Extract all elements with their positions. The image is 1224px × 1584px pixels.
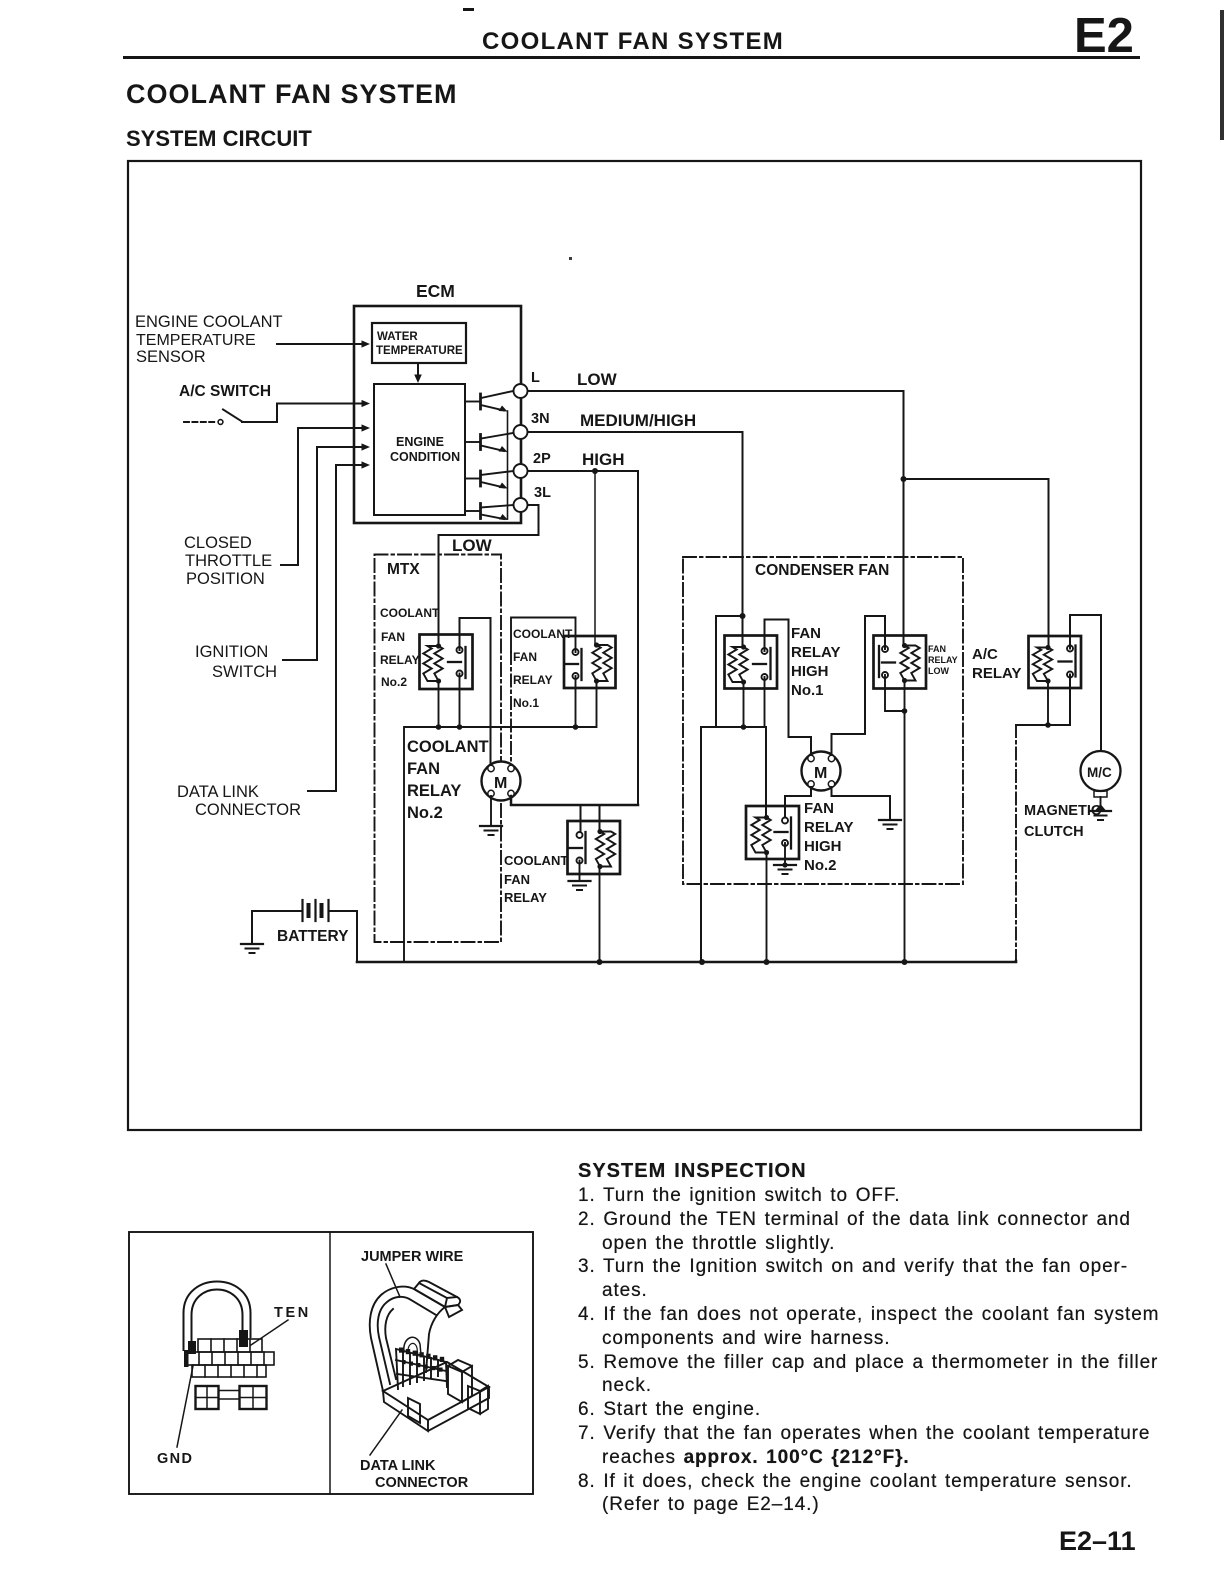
svg-text:COOLANT: COOLANT <box>504 853 568 868</box>
pin circle 2P <box>514 464 528 478</box>
jumper wire (left panel) <box>184 1282 251 1355</box>
pin circle L <box>514 384 528 398</box>
transistor Q2 <box>465 433 513 452</box>
svg-text:TEMPERATURE: TEMPERATURE <box>136 332 256 349</box>
svg-text:GND: GND <box>157 1451 193 1467</box>
fan relay high No.1 label <box>791 625 840 699</box>
coolant fan relay No.1 label (small) <box>513 627 573 710</box>
svg-text:LOW: LOW <box>452 536 493 555</box>
svg-text:CLOSED: CLOSED <box>184 534 252 552</box>
svg-text:BATTERY: BATTERY <box>277 928 349 945</box>
relay K2 coolant fan relay No.1 <box>564 636 616 688</box>
motor M2 condenser fan motor <box>802 752 841 791</box>
ground below coolant fan relay <box>569 881 591 890</box>
node MEDIUM/HIGH branch <box>740 613 746 619</box>
svg-text:FAN: FAN <box>513 650 537 664</box>
relay K5 fan relay low <box>874 636 927 689</box>
svg-text:No.2: No.2 <box>804 857 837 874</box>
coolant fan relay label <box>504 853 568 905</box>
motor M1 coolant fan motor <box>482 762 521 801</box>
svg-text:FAN: FAN <box>504 872 530 887</box>
svg-text:ENGINE COOLANT: ENGINE COOLANT <box>135 313 283 331</box>
svg-text:3N: 3N <box>531 411 550 427</box>
ground right of fan relay high No.2 <box>879 820 901 829</box>
svg-text:RELAY: RELAY <box>504 890 547 905</box>
wire branch to coolant fan relay coil <box>599 805 601 832</box>
section headings <box>126 79 458 110</box>
wire ignition switch to ECM <box>283 447 363 660</box>
condenser bus <box>700 727 702 962</box>
node bus junctions <box>597 959 603 965</box>
relay K7 A/C relay <box>1029 636 1082 688</box>
wire condenser motor to fan relay high No.2 contact <box>785 787 811 821</box>
wire fan relay low to main bus <box>904 681 906 963</box>
wire fan relay high No.2 coil to main bus <box>766 853 768 963</box>
svg-text:CONNECTOR: CONNECTOR <box>375 1475 469 1491</box>
dashed wire to motor terminal (ATX) <box>510 652 512 766</box>
system inspection text <box>578 1159 1178 1517</box>
wire relay No.1 contact bottom to bus <box>575 676 577 727</box>
data link connector face (left panel) <box>184 1339 274 1377</box>
wire branch to coolant fan relay contact <box>580 805 582 835</box>
main ground bus <box>357 961 1016 962</box>
fan relay low label (small) <box>928 644 958 676</box>
svg-text:RELAY: RELAY <box>791 644 840 661</box>
wire coolant fan relay contact to ground <box>579 861 581 882</box>
wire MEDIUM/HIGH branch <box>716 616 743 727</box>
svg-text:M/C: M/C <box>1087 765 1112 780</box>
svg-text:No.1: No.1 <box>513 696 539 710</box>
svg-text:DATA LINK: DATA LINK <box>177 783 259 801</box>
wire data link connector to ECM <box>308 465 363 791</box>
wire closed throttle position to ECM <box>281 428 363 565</box>
ground below coolant fan motor <box>480 826 502 835</box>
svg-text:COOLANT: COOLANT <box>380 606 440 620</box>
relay K4 fan relay high No.1 <box>725 636 778 689</box>
wire condenser motor to ground <box>832 787 891 820</box>
wire relay No.1 contact top to ATX motor feed <box>511 618 576 653</box>
svg-text:RELAY: RELAY <box>972 665 1021 682</box>
page header <box>482 28 784 56</box>
svg-text:HIGH: HIGH <box>791 663 829 680</box>
A/C switch S1 <box>184 421 216 423</box>
node LOW branch <box>901 476 907 482</box>
svg-text:TEMPERATURE: TEMPERATURE <box>376 345 463 357</box>
transistor Q4 <box>465 504 513 521</box>
fan relay high No.2 label <box>804 800 853 874</box>
wire relay high No.1 contact bottom to bus <box>764 677 766 727</box>
wire fan relay low outputs join <box>885 675 905 711</box>
relay K1 coolant fan relay No.2 <box>420 635 473 690</box>
pin circle 3L <box>514 498 528 512</box>
svg-text:THROTTLE: THROTTLE <box>185 552 272 570</box>
svg-text:FAN: FAN <box>928 644 946 654</box>
svg-text:CONDITION: CONDITION <box>390 450 460 464</box>
svg-text:MEDIUM/HIGH: MEDIUM/HIGH <box>580 411 696 430</box>
emitter rail inside ECM <box>507 411 509 519</box>
svg-text:M: M <box>814 765 827 782</box>
node bus joints <box>436 724 442 730</box>
wire coolant fan relay coil to main bus <box>599 867 601 963</box>
svg-text:M: M <box>494 775 507 792</box>
svg-text:FAN: FAN <box>381 630 405 644</box>
MTX dashed enclosure <box>375 555 502 943</box>
svg-text:FAN: FAN <box>791 625 821 642</box>
svg-text:JUMPER WIRE: JUMPER WIRE <box>361 1249 464 1265</box>
engine condition block <box>374 384 465 515</box>
transistor Q1 <box>465 391 513 412</box>
svg-text:RELAY: RELAY <box>380 653 420 667</box>
svg-text:A/C SWITCH: A/C SWITCH <box>179 383 271 400</box>
svg-text:MAGNETIC: MAGNETIC <box>1024 803 1102 819</box>
wire relay No.2 contact to motor <box>460 618 491 766</box>
ground below battery <box>241 944 263 953</box>
coolant fan relay No.2 label (large) <box>407 738 489 822</box>
svg-text:No.1: No.1 <box>791 682 824 699</box>
svg-text:DATA LINK: DATA LINK <box>360 1458 436 1474</box>
ground below magnetic clutch <box>1090 804 1111 820</box>
svg-text:RELAY: RELAY <box>407 782 461 800</box>
wire 3L to LOW (MTX) <box>439 505 539 646</box>
svg-text:L: L <box>531 370 540 386</box>
svg-text:3L: 3L <box>534 485 551 501</box>
page number <box>1059 1526 1136 1557</box>
wire relay high No.1 coil bottom to bus <box>743 682 745 727</box>
svg-text:2P: 2P <box>533 451 551 467</box>
circuit border frame <box>128 161 1141 1130</box>
svg-text:RELAY: RELAY <box>928 655 958 665</box>
inspection figure frame <box>129 1232 533 1494</box>
wire relay high No.1 contact top to condenser motor <box>765 620 812 759</box>
wire A/C relay contact to magnetic clutch <box>1070 615 1101 751</box>
ECM box U10 <box>354 306 521 523</box>
svg-text:No.2: No.2 <box>381 675 407 689</box>
water temperature block <box>372 323 466 363</box>
lower connector block (left panel) <box>196 1386 267 1409</box>
dashed wire A/C relay return to main bus <box>1015 725 1017 961</box>
arrow water temp to engine condition <box>417 363 419 376</box>
wire relay No.2 contact bottom to bus <box>459 674 461 728</box>
svg-text:HIGH: HIGH <box>804 838 842 855</box>
svg-text:CONNECTOR: CONNECTOR <box>195 801 301 819</box>
wire fan relay low contact top to condenser motor <box>832 616 886 759</box>
wire A/C switch to ECM <box>242 404 363 423</box>
wire relay No.2 coil to bus <box>438 681 440 727</box>
svg-text:HIGH: HIGH <box>582 450 625 469</box>
svg-text:ENGINE: ENGINE <box>396 435 444 449</box>
svg-text:COOLANT: COOLANT <box>407 738 489 756</box>
svg-text:A/C: A/C <box>972 646 998 663</box>
magnetic clutch label <box>1024 803 1102 840</box>
wire sensor arrow into water temperature <box>277 343 363 345</box>
svg-text:LOW: LOW <box>577 370 618 389</box>
svg-text:RELAY: RELAY <box>804 819 853 836</box>
wire HIGH net <box>528 471 639 805</box>
relay K6 fan relay high No.2 <box>746 806 799 859</box>
svg-text:TEN: TEN <box>274 1305 311 1321</box>
condenser fan dashed enclosure <box>683 557 963 884</box>
coolant fan relay No.2 label (small) <box>380 606 440 689</box>
svg-text:FAN: FAN <box>407 760 440 778</box>
node HIGH branch <box>592 468 598 474</box>
transistor Q3 <box>465 471 513 489</box>
wire LOW net <box>528 391 904 646</box>
data link connector 3D drawing <box>370 1281 489 1431</box>
svg-text:SWITCH: SWITCH <box>212 663 277 681</box>
svg-text:RELAY: RELAY <box>513 673 553 687</box>
svg-text:IGNITION: IGNITION <box>195 643 268 661</box>
ground below fan relay high No.2 <box>774 862 796 874</box>
svg-text:LOW: LOW <box>928 666 949 676</box>
svg-text:CONDENSER FAN: CONDENSER FAN <box>755 562 889 579</box>
relay K3 coolant fan relay <box>568 821 621 874</box>
A/C relay label <box>972 646 1021 682</box>
wire HIGH branch to coolant fan relay No.1 coil <box>594 471 596 645</box>
wire motor to HIGH riser (thick) <box>511 796 638 805</box>
motor M3 magnetic clutch <box>1081 751 1121 791</box>
wire MEDIUM/HIGH net <box>528 432 743 646</box>
svg-text:No.2: No.2 <box>407 804 443 822</box>
wire fan relay high No.2 contact to ground <box>784 843 786 864</box>
wire A/C relay outputs join <box>1016 675 1070 726</box>
wire motor to ground <box>490 796 492 826</box>
svg-text:CLUTCH: CLUTCH <box>1024 824 1084 840</box>
wire relay No.1 coil bottom to bus corner <box>404 681 597 962</box>
battery B1 <box>252 900 357 962</box>
svg-text:POSITION: POSITION <box>186 570 265 588</box>
svg-text:WATER: WATER <box>377 331 418 343</box>
svg-text:SENSOR: SENSOR <box>136 348 206 366</box>
pin circle 3N <box>514 425 528 439</box>
svg-text:FAN: FAN <box>804 800 834 817</box>
wire LOW branch to A/C relay <box>904 479 1049 647</box>
svg-text:ECM: ECM <box>416 281 455 301</box>
svg-text:MTX: MTX <box>387 561 420 578</box>
